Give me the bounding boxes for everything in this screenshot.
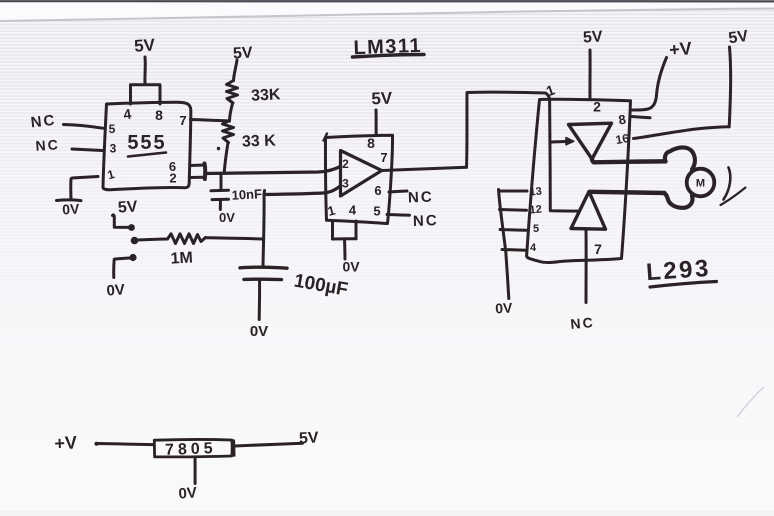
svg-text:8: 8 xyxy=(155,107,163,123)
svg-text:NC: NC xyxy=(30,112,57,132)
svg-text:5V: 5V xyxy=(583,28,604,46)
svg-text:0V: 0V xyxy=(342,259,360,275)
svg-text:16: 16 xyxy=(615,131,631,147)
svg-text:5: 5 xyxy=(373,204,380,219)
svg-text:5V: 5V xyxy=(371,89,393,109)
svg-text:0V: 0V xyxy=(62,201,81,218)
svg-text:3: 3 xyxy=(110,142,117,156)
svg-text:7805: 7805 xyxy=(165,440,217,459)
svg-text:4: 4 xyxy=(530,242,537,254)
svg-text:5V: 5V xyxy=(134,35,157,55)
svg-text:5V: 5V xyxy=(299,429,320,447)
svg-text:0V: 0V xyxy=(250,323,268,340)
svg-text:33 K: 33 K xyxy=(242,132,277,150)
svg-text:5V: 5V xyxy=(233,44,254,62)
svg-text:33K: 33K xyxy=(251,86,282,105)
svg-text:5V: 5V xyxy=(117,198,138,216)
svg-text:NC: NC xyxy=(35,136,60,154)
svg-text:NC: NC xyxy=(408,189,434,207)
svg-text:+V: +V xyxy=(54,432,78,453)
svg-text:NC: NC xyxy=(413,212,439,230)
svg-text:2: 2 xyxy=(342,157,349,171)
svg-text:2: 2 xyxy=(169,171,176,186)
svg-text:5: 5 xyxy=(533,223,539,235)
svg-text:LM311: LM311 xyxy=(353,35,422,59)
svg-text:5V: 5V xyxy=(727,28,749,48)
svg-text:555: 555 xyxy=(127,132,166,154)
svg-text:0V: 0V xyxy=(495,300,514,317)
svg-text:8: 8 xyxy=(367,135,375,151)
svg-text:2: 2 xyxy=(593,99,601,115)
svg-text:6: 6 xyxy=(374,183,381,198)
svg-text:+V: +V xyxy=(668,38,692,60)
svg-text:0V: 0V xyxy=(106,281,126,299)
svg-text:M: M xyxy=(696,178,705,190)
svg-text:4: 4 xyxy=(349,203,357,218)
svg-text:12: 12 xyxy=(529,204,542,217)
svg-text:0V: 0V xyxy=(219,210,235,225)
svg-text:1M: 1M xyxy=(170,249,193,267)
svg-text:7: 7 xyxy=(380,150,387,165)
svg-text:13: 13 xyxy=(529,186,542,199)
svg-text:L293: L293 xyxy=(645,255,711,286)
svg-text:NC: NC xyxy=(570,314,596,332)
svg-text:5: 5 xyxy=(109,122,116,136)
svg-text:10nF: 10nF xyxy=(231,186,262,203)
svg-text:0V: 0V xyxy=(178,484,198,502)
svg-text:7: 7 xyxy=(179,113,186,128)
svg-text:3: 3 xyxy=(342,177,349,191)
svg-text:7: 7 xyxy=(594,241,602,257)
